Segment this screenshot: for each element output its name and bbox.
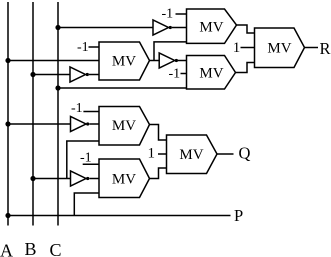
wire A to P output xyxy=(8,215,231,217)
wire C to inverter G1 xyxy=(58,27,153,29)
svg-text:MV: MV xyxy=(179,147,203,163)
inverter G1 xyxy=(153,20,169,35)
wire B to inverter G5 xyxy=(33,178,71,180)
node A1 junction dot xyxy=(5,58,10,63)
svg-text:1: 1 xyxy=(233,40,241,56)
wire A to MV2 xyxy=(8,60,99,62)
wire P riser to MV6 input 3 xyxy=(74,193,99,216)
inverter G4 xyxy=(71,117,87,132)
wire G4 output to MV5 xyxy=(89,123,99,125)
wire MV2 output riser to MV1 input 3 xyxy=(154,42,187,61)
wire G1 output to MV1 xyxy=(172,27,187,29)
inverter G3 xyxy=(159,53,175,68)
op MV3 majority gate xyxy=(255,28,305,68)
wire G3 output to MV4 xyxy=(178,60,187,62)
node A3 junction dot xyxy=(5,213,10,218)
node A2 junction dot xyxy=(5,121,10,126)
wire MV5 output to MV7 input 1 xyxy=(150,125,167,141)
op MV1 majority gate xyxy=(187,9,237,43)
wire B riser to MV5 input 3 xyxy=(67,141,99,179)
svg-text:-1: -1 xyxy=(169,67,181,82)
op MV7 majority gate xyxy=(167,135,218,174)
svg-text:MV: MV xyxy=(112,172,136,188)
svg-text:-1: -1 xyxy=(71,101,83,116)
svg-text:MV: MV xyxy=(199,20,223,36)
bus B vertical line xyxy=(32,2,34,226)
svg-text:C: C xyxy=(50,240,62,257)
op MV5 majority gate xyxy=(99,107,150,146)
node B1 junction dot xyxy=(30,72,35,77)
svg-text:P: P xyxy=(234,206,243,225)
inverter G3 bubble xyxy=(175,59,178,62)
svg-text:-1: -1 xyxy=(162,7,174,22)
wire B to inverter G2 xyxy=(33,74,70,76)
wire MV7 output to Q xyxy=(217,153,234,155)
op MV2 majority gate xyxy=(99,42,150,80)
inverter G5 xyxy=(71,171,87,186)
wire MV1 output to MV3 input 1 xyxy=(237,25,255,33)
wire -1 const to MV1 xyxy=(176,13,187,15)
inverter G5 bubble xyxy=(86,177,89,180)
svg-text:1: 1 xyxy=(148,146,156,162)
wire G5 output to MV6 xyxy=(89,178,99,180)
inverter G2 bubble xyxy=(86,73,89,76)
svg-text:MV: MV xyxy=(267,41,291,57)
op MV4 majority gate xyxy=(187,56,236,90)
wire -1 const to MV2 xyxy=(89,46,100,48)
inverter G4 bubble xyxy=(86,122,89,125)
bus A vertical line xyxy=(7,2,9,226)
bus C vertical line xyxy=(57,2,59,226)
wire 1 const to MV7 xyxy=(158,153,167,155)
svg-text:A: A xyxy=(0,241,13,257)
svg-text:B: B xyxy=(25,239,37,257)
wire -1 const to MV4 xyxy=(181,73,187,75)
inverter G1 bubble xyxy=(169,26,172,29)
wire 1 const to MV3 xyxy=(241,47,255,49)
op MV6 majority gate xyxy=(99,159,150,198)
wire -1 const to MV5 xyxy=(83,111,99,113)
wire C to MV4 input 3 xyxy=(58,87,187,89)
wire G2 output to MV2 xyxy=(89,74,99,76)
svg-text:MV: MV xyxy=(112,54,136,70)
wire MV4 output to MV3 input 3 xyxy=(236,63,255,73)
node C2 junction dot xyxy=(55,85,60,90)
svg-text:-1: -1 xyxy=(77,40,89,55)
svg-text:R: R xyxy=(320,39,331,58)
svg-text:-1: -1 xyxy=(80,151,92,166)
node B2 junction dot xyxy=(30,176,35,181)
wire -1 const to MV6 xyxy=(83,163,99,165)
wire MV2 output to inverter G3 xyxy=(150,60,160,62)
node C1 junction dot xyxy=(55,25,60,30)
wire MV3 output to R xyxy=(305,47,319,49)
svg-text:Q: Q xyxy=(239,144,251,163)
svg-text:MV: MV xyxy=(199,66,223,82)
wire A to inverter G4 xyxy=(8,123,71,125)
svg-text:MV: MV xyxy=(112,118,136,134)
wire MV6 output to MV7 input 3 xyxy=(150,168,167,179)
inverter G2 xyxy=(70,67,86,82)
